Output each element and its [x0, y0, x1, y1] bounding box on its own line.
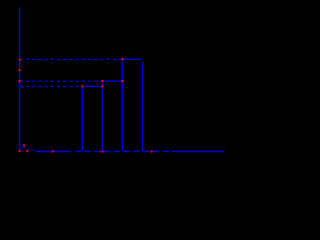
dashed level line y=81.1	[20, 80, 103, 82]
red dot step corner (102.4,86.2)	[101, 85, 103, 87]
vertical line x=82.4	[81, 87, 83, 151]
red dot step corner (82.4,86.2)	[81, 85, 83, 87]
red dot step corner (122.4,59.2)	[121, 58, 123, 60]
dashed level line y=86.3	[20, 85, 83, 87]
red dot step corner (122.4,81.1)	[121, 80, 123, 82]
red dot zigzag trough	[26, 150, 28, 152]
dashed level line y=59.4	[20, 58, 123, 60]
red dot on x-axis x=151.7	[151, 150, 153, 152]
step segment y=81.1	[103, 80, 122, 82]
red dot on x-axis x=102.4	[101, 150, 103, 152]
red dot step corner (102.4,81.0)	[101, 80, 103, 82]
red dot zigzag peak	[23, 144, 25, 146]
dashed zigzag curve near origin	[20, 145, 35, 151]
y-axis	[19, 7, 21, 151]
x-axis dashed segment middle	[75, 151, 169, 153]
step segment y=86.3	[83, 85, 102, 87]
x-axis solid segment left	[35, 151, 71, 153]
x-axis solid segment right	[172, 151, 225, 153]
step segment top y=59.3	[123, 58, 141, 60]
vertical line x=122.4	[121, 60, 123, 151]
vertical line x=102.4	[101, 82, 103, 151]
red dot at origin	[18, 150, 20, 152]
red dot on y-axis y=59.6	[18, 58, 20, 60]
vertical line x=142.5	[142, 61, 144, 151]
red dot on x-axis x=52.7	[52, 150, 54, 152]
red dot on y-axis y=81.0	[18, 80, 20, 82]
red dot on y-axis y=70.2	[18, 69, 20, 71]
